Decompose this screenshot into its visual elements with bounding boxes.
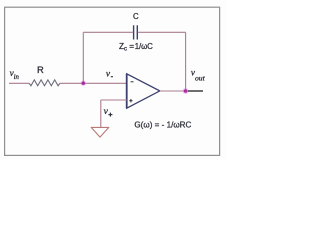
svg-text:R: R — [37, 64, 44, 75]
op-amp minus input symbol — [131, 81, 134, 83]
wire feedback top left segment — [83, 31, 133, 33]
wire down to ground — [100, 100, 102, 127]
node junction at output (magenta dot) — [183, 88, 189, 94]
svg-text:v: v — [104, 106, 109, 117]
wire op-amp output — [160, 90, 186, 92]
node junction at inverting input (magenta dot) — [81, 80, 87, 86]
border frame (decorative) — [5, 7, 220, 155]
svg-text:1/ωC: 1/ωC — [135, 42, 153, 51]
capacitor C — [134, 25, 138, 39]
wire non-inverting input horizontal — [101, 99, 127, 101]
wire feedback left vertical — [82, 32, 84, 83]
wire input from v_in to resistor — [9, 82, 29, 84]
svg-text:=: = — [129, 42, 134, 51]
wire resistor to inverting input — [60, 82, 127, 84]
op-amp plus input symbol — [129, 99, 132, 102]
resistor R — [29, 80, 60, 86]
svg-text:C: C — [133, 12, 139, 21]
wire feedback top right segment — [138, 31, 186, 33]
wire output stub (dark) — [188, 90, 203, 92]
op-amp U1 triangle — [127, 74, 160, 108]
ground symbol — [91, 127, 109, 137]
svg-text:G(ω) = - 1/ωRC: G(ω) = - 1/ωRC — [134, 120, 191, 129]
wire feedback right vertical — [185, 32, 187, 91]
